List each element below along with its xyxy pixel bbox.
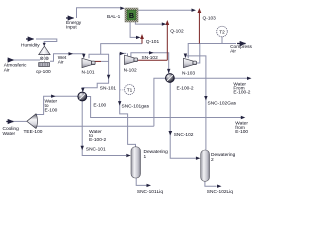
svg-text:Q-102: Q-102	[170, 29, 184, 35]
svg-text:SN-101: SN-101	[100, 86, 117, 92]
svg-text:BAL-1: BAL-1	[107, 14, 121, 20]
svg-text:N-101: N-101	[82, 70, 95, 76]
svg-text:E-100: E-100	[235, 129, 248, 135]
svg-text:SNC-101Liq: SNC-101Liq	[137, 189, 163, 195]
svg-text:TEE-100: TEE-100	[24, 129, 43, 135]
svg-text:cp-100: cp-100	[36, 69, 51, 75]
svg-text:E-100-2: E-100-2	[177, 85, 194, 91]
svg-text:Input: Input	[66, 24, 77, 30]
svg-text:SNC-102Liq: SNC-102Liq	[207, 189, 233, 195]
svg-text:Dewatering: Dewatering	[211, 152, 236, 158]
svg-text:Air: Air	[4, 67, 10, 73]
svg-text:E-100: E-100	[45, 107, 58, 113]
svg-text:Air: Air	[58, 60, 64, 66]
svg-text:N-103: N-103	[182, 71, 195, 77]
svg-text:SNC-102Gas: SNC-102Gas	[208, 100, 237, 106]
svg-text:Dewatering: Dewatering	[144, 149, 169, 155]
svg-text:T2: T2	[219, 29, 225, 34]
svg-text:Q-103: Q-103	[203, 16, 217, 22]
svg-text:T1: T1	[127, 87, 133, 92]
svg-text:SNC-101: SNC-101	[86, 147, 106, 153]
svg-text:E-100: E-100	[93, 103, 106, 109]
svg-text:Q-101: Q-101	[146, 39, 160, 45]
svg-text:SN-102: SN-102	[142, 55, 159, 61]
svg-text:1: 1	[144, 154, 147, 160]
svg-text:Humidity: Humidity	[21, 43, 40, 49]
svg-text:B: B	[129, 11, 134, 20]
svg-text:Air: Air	[230, 49, 236, 55]
svg-text:E-100-2: E-100-2	[89, 137, 106, 143]
svg-text:E-100-2: E-100-2	[233, 90, 250, 96]
svg-text:2: 2	[211, 157, 214, 163]
svg-text:Water: Water	[3, 131, 16, 137]
svg-text:SNC-102: SNC-102	[174, 132, 194, 138]
svg-text:SNC-101gas: SNC-101gas	[122, 104, 150, 110]
svg-text:N-102: N-102	[124, 68, 137, 74]
